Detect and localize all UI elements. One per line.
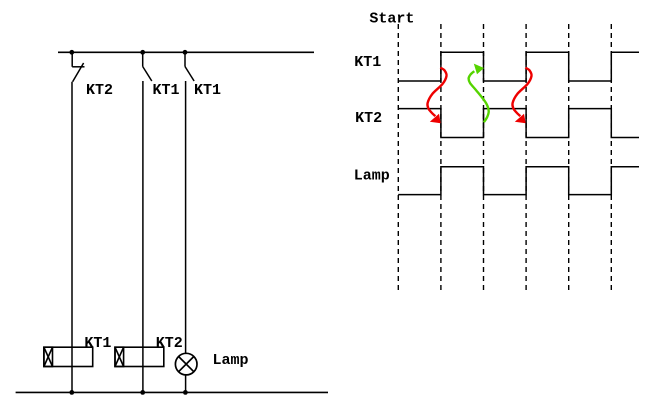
label KT2 timing row xyxy=(355,110,382,127)
coil KT2 xyxy=(115,347,164,366)
label Lamp timing row xyxy=(354,167,390,184)
gridline dashed t1 xyxy=(440,24,442,290)
label KT2 coil xyxy=(156,335,183,352)
node junction bottom 1 xyxy=(69,390,74,395)
waveform KT1 xyxy=(398,52,639,81)
label KT1 contact middle xyxy=(153,82,180,99)
wire top rail xyxy=(58,51,314,53)
label KT1 contact right xyxy=(194,82,221,99)
arrow red KT1-to-KT2 first xyxy=(427,68,446,124)
svg-text:KT2: KT2 xyxy=(355,110,382,127)
node junction top 3 xyxy=(183,50,188,55)
arrow red KT1-to-KT2 second xyxy=(512,68,531,124)
lamp symbol xyxy=(175,353,197,375)
node junction top 1 xyxy=(69,50,74,55)
svg-text:Lamp: Lamp xyxy=(354,167,390,184)
contact KT2 normally-closed xyxy=(72,52,84,81)
label KT1 timing row xyxy=(354,54,381,71)
wire branch 2 vertical xyxy=(142,81,144,392)
label KT2 contact xyxy=(86,82,113,99)
gridline dashed t4 xyxy=(568,24,570,290)
svg-text:KT2: KT2 xyxy=(86,82,113,99)
node junction bottom 3 xyxy=(183,390,188,395)
waveform KT2 xyxy=(398,109,639,138)
gridline dashed t2 xyxy=(483,24,485,290)
wire branch 1 vertical xyxy=(71,82,73,393)
svg-text:Lamp: Lamp xyxy=(213,352,249,369)
waveform Lamp xyxy=(398,167,639,195)
svg-text:KT1: KT1 xyxy=(153,82,180,99)
contact KT1 normally-open (middle) xyxy=(143,52,152,81)
coil KT1 xyxy=(44,347,93,366)
svg-text:KT1: KT1 xyxy=(84,335,111,352)
wire branch 3 vertical lower xyxy=(185,375,187,393)
svg-text:KT2: KT2 xyxy=(156,335,183,352)
svg-text:KT1: KT1 xyxy=(354,54,381,71)
label Lamp xyxy=(213,352,249,369)
wire bottom rail xyxy=(16,391,328,393)
node junction bottom 2 xyxy=(140,390,145,395)
svg-text:Start: Start xyxy=(369,11,414,28)
contact KT1 normally-open (right) xyxy=(185,52,194,81)
svg-text:KT1: KT1 xyxy=(194,82,221,99)
gridline dashed t5 xyxy=(610,24,612,290)
gridline dashed t3 xyxy=(525,24,527,290)
node junction top 2 xyxy=(140,50,145,55)
arrow green KT2-to-KT1 xyxy=(469,64,489,123)
wire branch 3 vertical upper xyxy=(185,81,187,353)
gridline dashed t0 xyxy=(397,24,399,290)
label Start xyxy=(369,11,414,28)
label KT1 coil xyxy=(84,335,111,352)
